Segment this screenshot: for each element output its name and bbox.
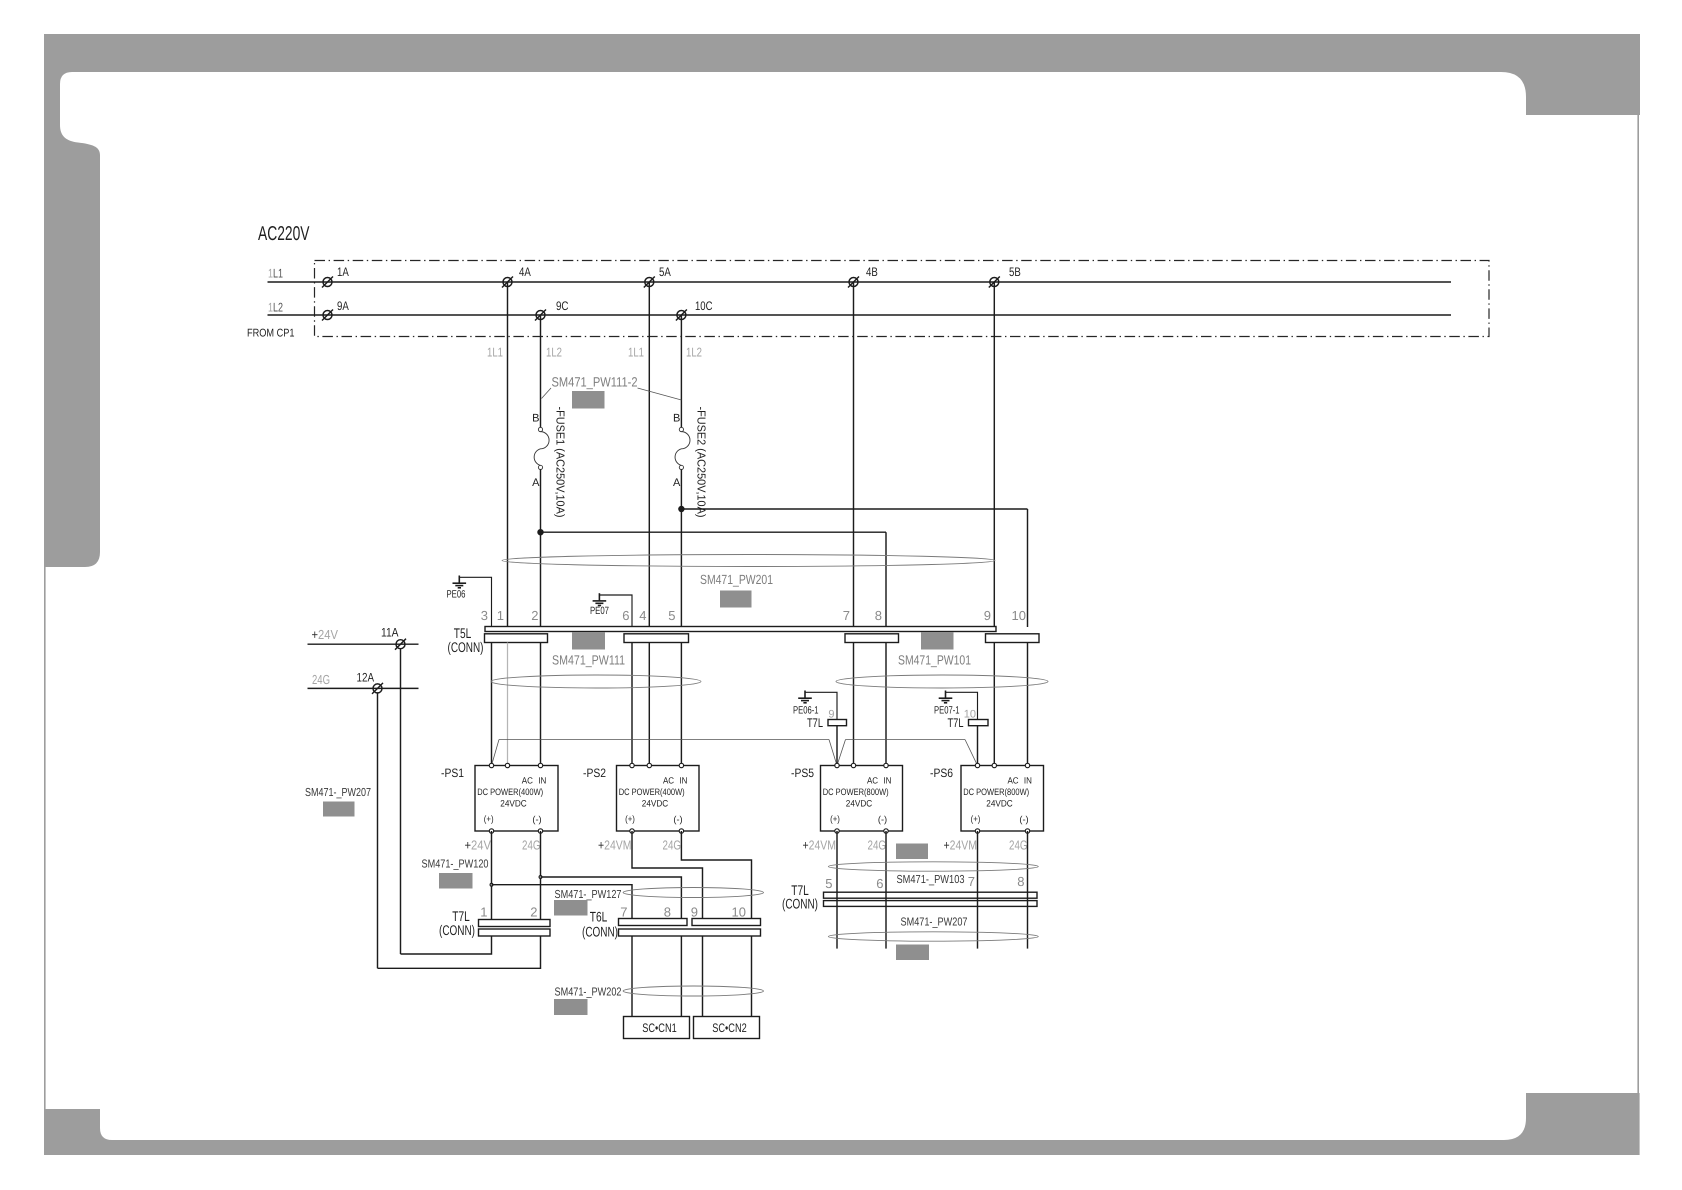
svg-text:SM471_PW201: SM471_PW201 [700,572,773,587]
wire: T5L pin1 down to PS1 (light) [507,643,509,766]
cable ellipse SM471_PW111 [491,675,701,688]
svg-text:(+): (+) [484,814,494,824]
connector SC-CN1 [624,1017,690,1039]
junction node on 24G [539,876,542,879]
wire: PS5 +24VM down [836,831,838,949]
terminal 4B [848,277,859,288]
svg-text:(-): (-) [878,815,887,825]
wire: 4A drop to T5L pin1 [507,282,509,627]
wire: 10C drop to fuse2 [680,315,682,428]
svg-text:7: 7 [968,874,975,889]
wire: +24V branch right to T6L pin7 [492,885,633,919]
svg-text:1: 1 [497,608,504,623]
svg-text:(-): (-) [673,815,682,825]
svg-text:3: 3 [481,608,488,623]
svg-text:1A: 1A [337,265,349,279]
terminal 1A [322,277,333,288]
svg-text:9A: 9A [337,299,349,313]
wire: bus line 1L2 [268,314,1452,316]
wire: fuse2 output down to T5L pin5 [680,470,682,628]
connector SC-CN2 [694,1017,760,1039]
svg-text:6: 6 [876,876,883,891]
svg-text:24VDC: 24VDC [500,799,527,809]
terminal 10C [676,310,687,321]
wire: 24G branch right to T6L pin8 [541,877,682,919]
wire: PS2 24G jog to T6L pin10 [681,831,751,919]
svg-text:(-): (-) [532,815,541,825]
wire: fuse1 output down to T5L pin2 [540,470,542,628]
wire: T5L pin7 down to PS5 [853,643,855,766]
masked blob PW207 left [323,802,355,817]
wire: 5A drop to T5L pin4 [648,282,650,627]
cable ellipse SM471-_PW103 [828,862,1038,871]
cable ellipse SM471-_PW207 right [828,932,1038,941]
svg-text:12A: 12A [357,671,375,685]
masked blob PW202 [554,999,588,1015]
masked part number blob [572,391,605,409]
svg-text:8: 8 [664,905,671,920]
wire: T5L pin4 down to PS2 [648,643,650,766]
svg-text:9: 9 [691,905,698,920]
svg-text:SM471-_PW120: SM471-_PW120 [422,858,489,871]
wire: 5B drop to T5L pin9 [993,282,995,627]
svg-text:24G: 24G [1009,838,1028,853]
svg-text:+24VM: +24VM [598,838,632,853]
svg-text:9: 9 [984,608,991,623]
terminal 5A [644,277,655,288]
svg-text:24G: 24G [868,838,887,853]
wire: T5L pin6 down to PS2 ground pin [631,643,633,766]
svg-text:T7L: T7L [948,716,964,730]
svg-text:-PS6: -PS6 [930,766,953,780]
svg-text:4B: 4B [866,265,878,279]
wire: bus line 1L1 [268,281,1452,283]
wire: 9C drop to fuse1 [540,315,542,428]
wire: PS1 +24V down to T7L pin1 [491,831,493,920]
wire: T6L pin7 down to SC-CN1 [631,936,633,1017]
svg-text:(+): (+) [971,814,981,824]
svg-text:2: 2 [530,905,537,920]
wire: down to T5L pin10 [1027,509,1029,627]
svg-text:10C: 10C [695,299,713,313]
svg-text:PE07: PE07 [590,605,609,617]
wire: fuse2 output feed right [681,508,1027,510]
svg-text:FROM CP1: FROM CP1 [247,328,295,340]
svg-text:PE06: PE06 [447,589,466,601]
svg-text:+24V: +24V [465,838,492,853]
junction fuse2 output node [678,506,684,512]
svg-text:T6L: T6L [590,909,608,925]
svg-text:DC POWER(400W): DC POWER(400W) [477,787,543,797]
wire: fuse1 output feed right [541,531,887,533]
masked blob on T5L right [921,632,954,650]
terminal 4A [502,277,513,288]
cable ellipse SM471_PW201 [502,555,995,567]
terminal 11A [395,639,406,650]
svg-text:1L2: 1L2 [268,301,283,315]
svg-text:10: 10 [732,905,746,920]
svg-text:PE07-1: PE07-1 [934,705,960,717]
svg-text:SC•CN1: SC•CN1 [642,1021,677,1035]
connector T7L (right) body [824,892,1038,898]
wire: T7L pin9 down to PS5 ground pin [836,726,838,766]
svg-text:(-): (-) [1019,815,1028,825]
svg-text:AC IN: AC IN [663,776,688,786]
terminal 12A [372,683,383,694]
masked blob PW127 [554,900,588,916]
wire: T6L pin10 down to SC-CN2 [751,936,753,1017]
frame: left thin border line [44,567,46,1109]
svg-text:B: B [532,413,539,425]
svg-text:5: 5 [668,608,675,623]
svg-text:11A: 11A [381,626,399,640]
svg-text:1: 1 [480,905,487,920]
wire: PS6 24G down [1027,831,1029,949]
svg-text:SM471-_PW202: SM471-_PW202 [555,986,622,999]
svg-text:+24VM: +24VM [944,838,978,853]
svg-text:DC POWER(800W): DC POWER(800W) [963,787,1029,797]
svg-text:(CONN): (CONN) [439,922,475,938]
masked blob on T5L left [572,632,605,650]
svg-text:A: A [673,477,681,489]
svg-text:-PS1: -PS1 [441,766,464,780]
wire: T5L pin9 down to PS6 [993,643,995,766]
svg-text:-PS5: -PS5 [791,766,814,780]
wire: down to T5L pin8 [885,532,887,627]
masked blob PW120 [439,873,473,889]
svg-text:1L1: 1L1 [487,345,503,360]
wire: T6L pin8 down to SC-CN1 [680,936,682,1017]
wire: T5L pin10 down to PS6 [1027,643,1029,766]
wire: PS6 +24VM down [977,831,979,949]
svg-text:AC220V: AC220V [258,223,310,245]
ground PE07 [599,595,632,627]
svg-text:SM471-_PW127: SM471-_PW127 [555,888,622,901]
svg-text:AC IN: AC IN [1007,776,1032,786]
svg-text:2: 2 [531,608,538,623]
svg-text:SM471_PW101: SM471_PW101 [898,653,971,668]
cable ellipse SM471-_PW202 [623,986,763,996]
wire: 4B drop to T5L pin7 [853,282,855,627]
wire: 11A down [400,649,402,954]
svg-text:5B: 5B [1009,265,1021,279]
frame: right thin border line [1637,115,1639,1093]
wire: PS2 +24VM jog to T6L pin9 [632,831,703,919]
svg-text:1L2: 1L2 [546,345,562,360]
masked part number blob [720,591,752,608]
svg-text:-FUSE1 (AC250V,10A): -FUSE1 (AC250V,10A) [554,407,567,518]
svg-text:9C: 9C [556,299,569,313]
svg-text:24G: 24G [663,838,682,853]
svg-text:5A: 5A [659,265,671,279]
svg-text:(+): (+) [830,814,840,824]
terminal 9A [322,310,333,321]
wire: T5L pin5 down to PS2 [680,643,682,766]
ground PE07-1 [946,692,978,719]
svg-text:4: 4 [639,608,646,623]
wire: PS1 24G down to T7L pin2 [540,831,542,920]
junction node on +24V [490,883,493,886]
svg-text:AC IN: AC IN [522,776,547,786]
fuse FUSE1 (wavy symbol with end circles) [534,427,549,469]
svg-text:24G: 24G [522,838,541,853]
svg-text:10: 10 [964,709,976,721]
svg-text:1L1: 1L1 [268,267,283,281]
svg-text:7: 7 [843,608,850,623]
svg-text:A: A [532,477,540,489]
masked blob PW207 right [896,945,929,961]
svg-text:DC POWER(800W): DC POWER(800W) [823,787,889,797]
ground PE06 [459,577,491,627]
wire: T7L pin1 down and left to 11A [401,936,492,954]
svg-text:+24V: +24V [312,627,339,642]
svg-text:T7L: T7L [807,716,823,730]
svg-text:(CONN): (CONN) [448,639,484,655]
cable ellipse SM471_PW101 [836,675,1048,688]
connector T6L body [619,919,688,926]
ground bus to PS ground pins (gray) [492,740,978,766]
svg-text:1L1: 1L1 [628,345,644,360]
wire: T5L pin8 down to PS5 [885,643,887,766]
wire: PS5 24G down [885,831,887,949]
svg-text:-FUSE2 (AC250V,10A): -FUSE2 (AC250V,10A) [695,407,708,518]
svg-text:(CONN): (CONN) [582,924,618,940]
svg-text:SM471-_PW207: SM471-_PW207 [305,786,371,799]
terminal 9C [535,310,546,321]
junction fuse1 output node [537,529,543,535]
svg-text:24G: 24G [312,672,330,687]
svg-text:SM471_PW111: SM471_PW111 [552,653,625,668]
svg-text:8: 8 [875,608,882,623]
wire: 12A down [377,693,379,968]
svg-text:7: 7 [620,905,627,920]
svg-text:SM471_PW111-2: SM471_PW111-2 [552,375,638,390]
fuse FUSE2 (wavy symbol with end circles) [675,427,690,469]
wire: T7L pin10 down to PS6 ground pin [977,726,979,766]
leader line right to 10C wire [638,388,682,400]
svg-text:PE06-1: PE06-1 [793,705,819,717]
svg-text:AC IN: AC IN [867,776,892,786]
svg-text:1L2: 1L2 [686,345,702,360]
wire: T7L pin2 down and left to 12A [378,936,541,968]
svg-text:6: 6 [622,608,629,623]
svg-text:(+): (+) [625,814,635,824]
svg-text:(CONN): (CONN) [782,896,818,912]
AC bus dash-dot boundary box [315,261,1490,337]
svg-text:5: 5 [825,876,832,891]
cable ellipse SM471-_PW127 [623,888,763,898]
svg-text:SM471-_PW207: SM471-_PW207 [901,916,968,929]
svg-text:24VDC: 24VDC [846,799,873,809]
frame: bottom bar with tabs [44,1093,1640,1155]
leader line left to 9C wire [542,388,552,399]
svg-text:DC POWER(400W): DC POWER(400W) [619,787,685,797]
svg-text:+24VM: +24VM [803,838,837,853]
svg-text:SC•CN2: SC•CN2 [712,1021,747,1035]
wire: T5L pin2 down to PS1 [540,643,542,766]
svg-text:24VDC: 24VDC [986,799,1013,809]
frame: top bar with left sidebar (gray page frame) [44,34,1640,567]
svg-text:B: B [673,413,680,425]
svg-text:8: 8 [1017,874,1024,889]
masked blob PW103 [896,844,928,860]
svg-text:24VDC: 24VDC [642,799,669,809]
svg-text:10: 10 [1012,608,1026,623]
terminal 5B [989,277,1000,288]
wire: T5L pin3 down to PS1 ground pin [491,643,493,766]
connector T5L body [485,627,996,632]
svg-text:9: 9 [828,709,834,721]
ground PE06-1 [805,692,837,719]
svg-text:SM471-_PW103: SM471-_PW103 [897,873,965,886]
svg-text:-PS2: -PS2 [583,766,606,780]
svg-text:4A: 4A [519,265,531,279]
wire: T6L pin9 down to SC-CN2 [702,936,704,1017]
connector T7L (left) body [479,920,551,927]
